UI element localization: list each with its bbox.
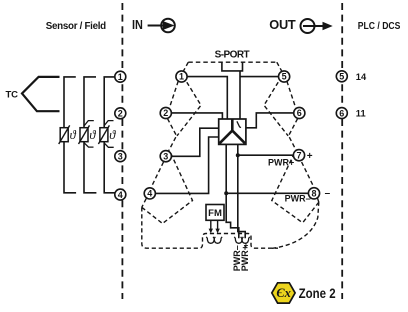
svg-text:Єx: Єx: [276, 286, 290, 300]
svg-text:ϑ: ϑ: [70, 128, 77, 142]
power rail PWR- vertical from amplifier: [226, 145, 239, 239]
junction dot PWR- to terminal8: [224, 191, 228, 195]
svg-text:PWR–: PWR–: [285, 194, 311, 204]
power plug socket 2: [213, 237, 222, 244]
wire PWR- to terminal8: [226, 192, 308, 194]
wire terminal6 to amplifier: [246, 113, 294, 128]
wire terminal4 to amplifier: [155, 137, 219, 193]
svg-text:S-PORT: S-PORT: [215, 49, 250, 60]
svg-text:–: –: [325, 188, 331, 199]
svg-text:5: 5: [339, 72, 344, 82]
S-PORT connector notch: [222, 62, 243, 71]
svg-text:11: 11: [356, 108, 366, 118]
svg-text:6: 6: [297, 108, 302, 118]
svg-text:IN: IN: [132, 17, 143, 32]
field terminal 1: [115, 71, 126, 82]
field terminal 4: [115, 189, 126, 200]
OUT converter symbol: [301, 19, 333, 33]
power plug socket 4: [241, 237, 250, 244]
field terminal 2: [115, 108, 126, 119]
svg-text:Sensor / Field: Sensor / Field: [46, 21, 106, 32]
module housing dashed outline left: [142, 62, 278, 248]
power plug socket 3: [234, 237, 243, 244]
module terminal 2: [160, 107, 171, 118]
svg-text:4: 4: [118, 190, 123, 200]
module terminal 1: [176, 71, 187, 82]
boundary line PLC side: [341, 3, 343, 299]
svg-text:2: 2: [118, 109, 123, 119]
IN converter symbol: [148, 19, 175, 33]
module terminal 3: [160, 151, 171, 162]
svg-text:3: 3: [163, 151, 168, 161]
S-PORT dashed top line: [188, 61, 276, 63]
FM arrow left: [209, 220, 213, 233]
isolation amplifier U1: [219, 119, 246, 144]
svg-text:+: +: [307, 151, 313, 162]
svg-text:TC: TC: [6, 89, 19, 100]
RTD lead wire 1: [64, 77, 76, 193]
svg-text:5: 5: [282, 72, 287, 82]
wire terminal2 to amplifier: [171, 113, 222, 119]
FM approval box: [206, 205, 224, 221]
RTD sensor R1 2-wire: [59, 125, 70, 144]
svg-text:1: 1: [118, 72, 123, 82]
RTD lead wire 2: [84, 77, 96, 193]
RTD lead wire 3: [104, 77, 115, 193]
RTD sensor R2 3-wire: [79, 121, 94, 148]
boundary line field side: [121, 3, 123, 299]
svg-text:PWR+: PWR+: [240, 245, 250, 271]
svg-text:FM: FM: [208, 208, 222, 219]
svg-text:1: 1: [179, 72, 184, 82]
svg-text:Zone 2: Zone 2: [299, 286, 336, 301]
svg-text:8: 8: [311, 189, 316, 199]
module terminal 4: [144, 188, 155, 199]
wire PWR+ to terminal7: [238, 154, 294, 156]
svg-text:ϑ: ϑ: [89, 128, 96, 142]
power plug socket 1: [206, 237, 215, 244]
module terminal 8: [308, 188, 319, 199]
svg-text:2: 2: [163, 108, 168, 118]
thermocouple TC symbol: [22, 77, 60, 111]
svg-text:PWR+: PWR+: [268, 157, 294, 167]
svg-text:OUT: OUT: [269, 17, 296, 32]
svg-text:PLC / DCS: PLC / DCS: [358, 21, 401, 32]
svg-text:6: 6: [339, 108, 344, 118]
svg-text:ϑ: ϑ: [109, 128, 116, 142]
PLC terminal 5: [336, 71, 347, 82]
svg-text:7: 7: [296, 150, 301, 160]
svg-text:14: 14: [356, 72, 367, 82]
RTD sensor R3 4-wire: [98, 121, 113, 148]
module terminal 6: [294, 107, 305, 118]
junction dot PWR+ to terminal7: [236, 153, 240, 157]
svg-text:3: 3: [118, 151, 123, 161]
power rail PWR+ vertical from amplifier: [238, 145, 245, 239]
field terminal 3: [115, 151, 126, 162]
FM arrow right: [215, 220, 219, 233]
wire S-PORT and terminal5 to amplifier: [240, 71, 279, 119]
wire terminal1 to amplifier: [187, 77, 227, 119]
module terminal 7: [293, 150, 304, 161]
svg-text:4: 4: [147, 189, 152, 199]
wire terminal3 to amplifier: [171, 128, 218, 156]
Ex hazardous area logo: [272, 283, 295, 303]
module housing dashed outline right: [264, 62, 319, 248]
module terminal 5: [279, 71, 290, 82]
PLC terminal 6: [336, 108, 347, 119]
